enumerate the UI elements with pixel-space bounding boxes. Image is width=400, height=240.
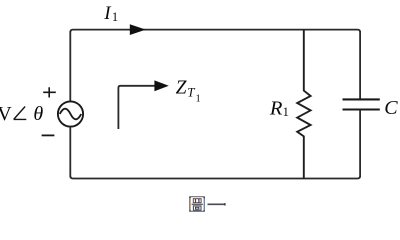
svg-text:C: C [384,97,398,119]
svg-text:R: R [269,98,283,120]
svg-text:1: 1 [196,94,201,105]
voltage source VS [58,101,83,126]
wire left lower [69,127,71,177]
wire bottom [70,176,360,179]
current arrow I1 [130,24,146,35]
svg-text:1: 1 [112,10,118,24]
label V angle theta [0,103,43,125]
svg-text:T: T [187,85,195,100]
svg-text:θ: θ [33,103,43,125]
caption figure-one glyph tu [190,197,205,212]
impedance arrow ZT1 [118,86,155,129]
caption dash one [208,203,226,205]
svg-text:V: V [0,103,12,125]
svg-text:1: 1 [283,105,289,119]
minus sign [42,134,55,136]
resistor R1 [297,30,310,179]
svg-text:Z: Z [176,78,187,99]
wire left upper [69,31,71,102]
plus sign [43,87,56,97]
capacitor C [343,31,380,177]
wire top [70,30,360,33]
